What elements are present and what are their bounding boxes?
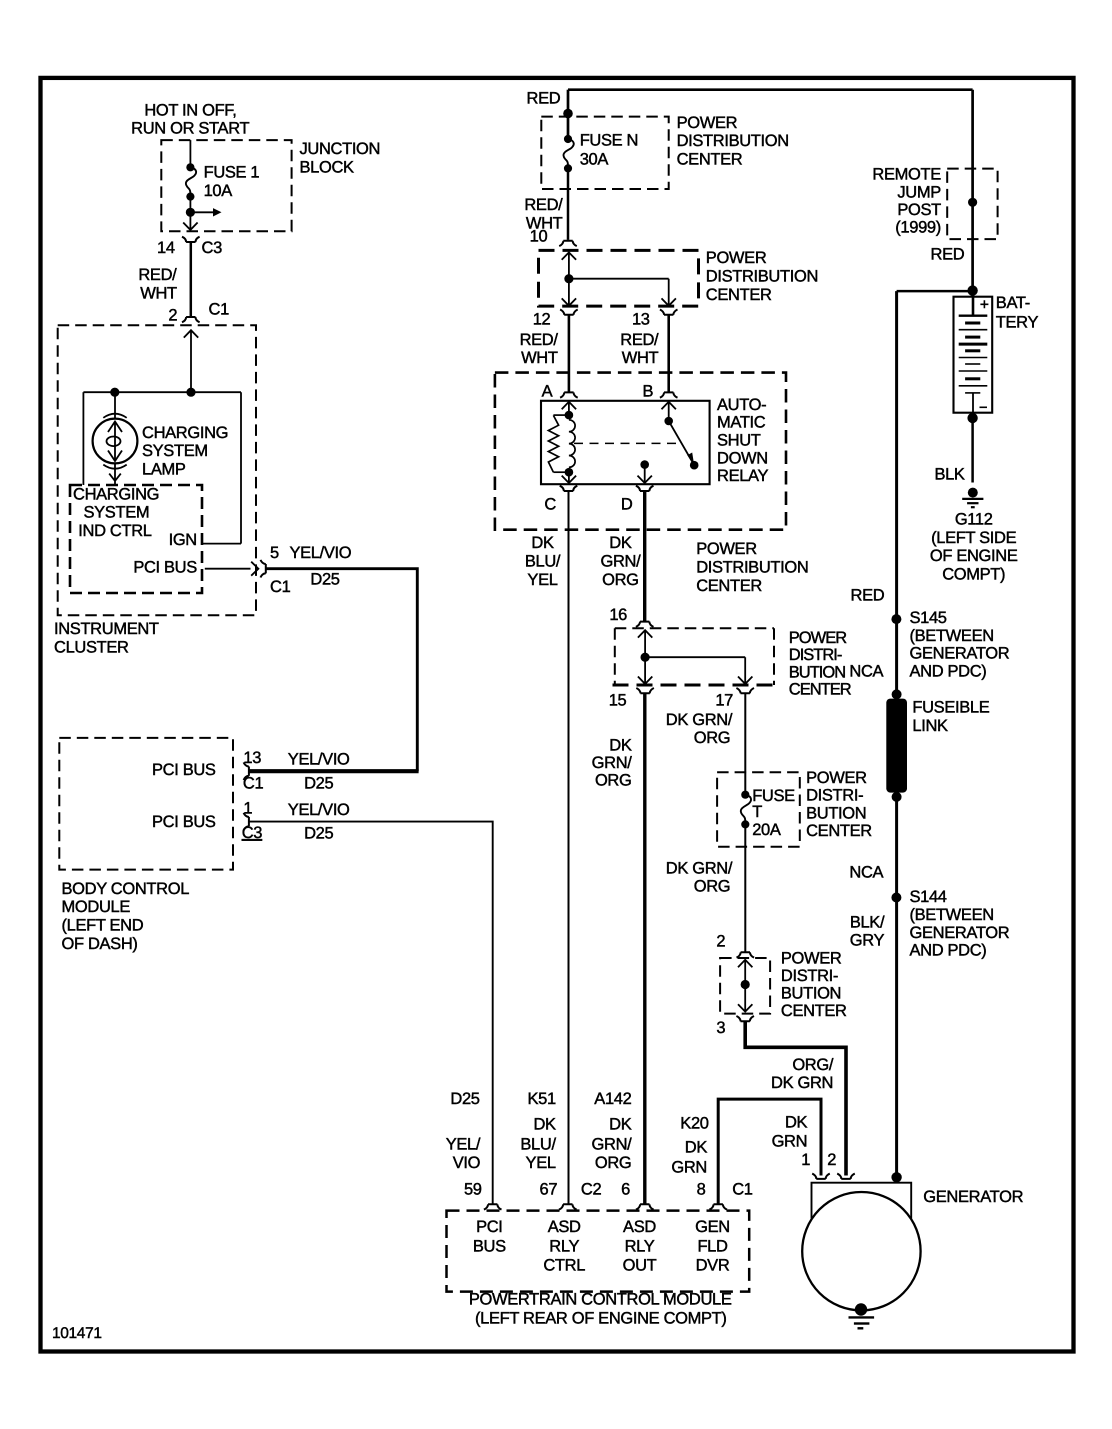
- svg-text:2: 2: [716, 933, 725, 951]
- svg-text:3: 3: [716, 1019, 725, 1037]
- wire NCA (link to S144): [895, 797, 898, 898]
- svg-text:DK GRN: DK GRN: [771, 1074, 833, 1092]
- svg-text:DK: DK: [533, 1115, 556, 1133]
- svg-text:OF ENGINE: OF ENGINE: [930, 547, 1018, 565]
- svg-text:GENERATOR: GENERATOR: [923, 1188, 1023, 1206]
- connector 14 C3 cup: [157, 237, 222, 257]
- svg-text:T: T: [752, 803, 762, 821]
- relay coil arrow A: [562, 402, 576, 415]
- diagram number 101471: [52, 1325, 102, 1342]
- junction block box: [161, 140, 291, 231]
- svg-text:BLOCK: BLOCK: [300, 158, 355, 176]
- svg-text:DISTRIBUTION: DISTRIBUTION: [677, 132, 789, 150]
- wire BLK/GRY to generator: [895, 898, 898, 1178]
- svg-text:BUS: BUS: [473, 1237, 506, 1255]
- remote jump post box: [947, 169, 997, 240]
- wire RED/WHT to cluster: [190, 242, 193, 317]
- svg-text:RUN OR START: RUN OR START: [131, 120, 249, 138]
- relay coil arrow C: [562, 472, 576, 483]
- bus left leg wire: [82, 392, 84, 485]
- svg-text:K20: K20: [680, 1115, 708, 1133]
- relay terminal A cup: [542, 383, 578, 401]
- svg-text:(BETWEEN: (BETWEEN: [910, 627, 994, 645]
- svg-text:DISTRIBUTION: DISTRIBUTION: [706, 268, 818, 286]
- node S145: [891, 614, 901, 624]
- svg-text:PCI BUS: PCI BUS: [152, 761, 216, 779]
- svg-text:AND PDC): AND PDC): [910, 942, 987, 960]
- PDC box 2: [539, 250, 699, 306]
- svg-text:RELAY: RELAY: [717, 467, 768, 485]
- svg-text:JUNCTION: JUNCTION: [300, 140, 381, 158]
- svg-text:AUTO-: AUTO-: [717, 396, 766, 414]
- svg-text:SHUT: SHUT: [717, 432, 761, 450]
- svg-text:YEL/VIO: YEL/VIO: [290, 544, 352, 562]
- wire down to fuse N: [567, 90, 570, 140]
- svg-text:RED/: RED/: [520, 331, 559, 349]
- svg-text:CTRL: CTRL: [543, 1257, 585, 1275]
- svg-text:BLU/: BLU/: [520, 1136, 556, 1154]
- PDC box 4: [717, 772, 800, 847]
- fuse T 20A: [741, 787, 795, 839]
- connector 15 cup: [609, 688, 654, 710]
- PCM pin 67 cup: [540, 1181, 602, 1210]
- svg-text:VIO: VIO: [453, 1154, 481, 1172]
- svg-text:POWERTRAIN CONTROL MODULE: POWERTRAIN CONTROL MODULE: [469, 1291, 732, 1309]
- svg-text:C1: C1: [732, 1181, 753, 1199]
- svg-text:DISTRIBUTION: DISTRIBUTION: [696, 558, 808, 576]
- svg-text:GENERATOR: GENERATOR: [910, 924, 1010, 942]
- svg-text:ORG/: ORG/: [792, 1056, 834, 1074]
- wire to remote jump post: [971, 90, 974, 297]
- svg-text:POWER: POWER: [781, 950, 842, 968]
- PCM pin name ASD RLY OUT: [623, 1218, 657, 1275]
- wire label RED/ WHT 10: [524, 196, 563, 246]
- svg-text:ORG: ORG: [602, 571, 639, 589]
- generator terminal 2 cup: [837, 1174, 855, 1179]
- generator label: [923, 1188, 1023, 1206]
- instrument cluster label: [54, 620, 159, 656]
- svg-text:B: B: [643, 383, 654, 401]
- svg-text:OF DASH): OF DASH): [62, 935, 138, 953]
- powertrain control module label: [469, 1291, 732, 1328]
- wire label DK GRN/ ORG (17): [666, 711, 733, 747]
- svg-text:67: 67: [540, 1181, 558, 1199]
- svg-text:14: 14: [157, 239, 175, 257]
- svg-text:DISTRI-: DISTRI-: [806, 787, 863, 805]
- svg-text:GENERATOR: GENERATOR: [910, 645, 1010, 663]
- svg-text:ORG: ORG: [595, 1154, 632, 1172]
- PCM pin 59 cup: [464, 1181, 502, 1210]
- svg-text:SYSTEM: SYSTEM: [142, 442, 208, 460]
- PDC box 5: [720, 958, 770, 1014]
- node bus-lamp: [110, 388, 119, 397]
- svg-text:13: 13: [243, 749, 261, 767]
- wire YEL/VIO (BCM to PCM 59): [249, 822, 493, 1205]
- svg-text:POST: POST: [897, 201, 941, 219]
- svg-text:RED: RED: [851, 587, 885, 605]
- connector 2 C1 cup: [168, 301, 229, 325]
- PCM pin 6 cup: [621, 1181, 654, 1210]
- svg-text:BAT-: BAT-: [996, 294, 1030, 312]
- wire label column K51 DK BLU/YEL: [520, 1090, 556, 1172]
- PDC2 arrow down left: [562, 279, 576, 306]
- PDC5 arrow down: [738, 985, 752, 1012]
- svg-text:GRN: GRN: [671, 1158, 707, 1176]
- svg-text:POWER: POWER: [789, 629, 847, 647]
- svg-text:MODULE: MODULE: [62, 898, 131, 916]
- arrow down to connector C3: [183, 212, 197, 230]
- svg-text:DK: DK: [685, 1139, 708, 1157]
- node battery negative: [967, 413, 977, 423]
- svg-text:D: D: [621, 495, 633, 513]
- PDC5 node: [741, 980, 750, 989]
- PDC box 1: [541, 117, 668, 189]
- svg-text:INSTRUMENT: INSTRUMENT: [54, 620, 159, 638]
- svg-text:ORG: ORG: [694, 729, 731, 747]
- ground G112 label: [930, 510, 1018, 583]
- svg-text:1: 1: [243, 799, 252, 817]
- svg-text:DOWN: DOWN: [717, 449, 768, 467]
- svg-text:ORG: ORG: [694, 877, 731, 895]
- svg-text:1: 1: [801, 1151, 810, 1169]
- svg-text:MATIC: MATIC: [717, 414, 766, 432]
- NCA label 2: [849, 863, 883, 881]
- svg-text:S144: S144: [910, 888, 947, 906]
- battery: [954, 296, 993, 412]
- svg-text:RED: RED: [527, 90, 561, 108]
- svg-text:GEN: GEN: [695, 1218, 730, 1236]
- svg-text:CENTER: CENTER: [696, 577, 762, 595]
- PCM pin name ASD RLY CTRL: [543, 1218, 585, 1275]
- svg-text:FUSE 1: FUSE 1: [204, 164, 260, 182]
- BCM PCI BUS pin label 2: [152, 813, 216, 831]
- svg-text:WHT: WHT: [140, 285, 177, 303]
- node bus-entry: [186, 388, 195, 397]
- PDC 5 label: [781, 950, 847, 1020]
- thick wire YEL/VIO (cluster to BCM): [249, 569, 419, 772]
- feed arrow right: [190, 208, 221, 216]
- svg-text:FUSEIBLE: FUSEIBLE: [912, 699, 989, 717]
- ground G112: [962, 488, 983, 508]
- svg-text:(LEFT END: (LEFT END: [62, 917, 144, 935]
- svg-text:GRY: GRY: [850, 931, 885, 949]
- svg-text:101471: 101471: [52, 1325, 102, 1342]
- svg-text:30A: 30A: [580, 151, 609, 169]
- svg-text:20A: 20A: [752, 821, 781, 839]
- body control module label: [62, 880, 190, 953]
- svg-text:RED/: RED/: [138, 266, 177, 284]
- fuse F1 10A: [186, 163, 260, 201]
- wire RED label (battery): [931, 246, 965, 264]
- wire label ORG/ DK GRN: [771, 1056, 834, 1092]
- cluster bus wire: [83, 391, 241, 393]
- PDC5 arrow up: [738, 960, 752, 985]
- svg-text:CENTER: CENTER: [806, 822, 872, 840]
- powertrain control module box: [447, 1211, 750, 1292]
- relay switch blade: [664, 417, 698, 470]
- connector 12 cup: [533, 310, 578, 329]
- svg-text:10A: 10A: [204, 182, 233, 200]
- wire label 5 YEL/VIO D25: [290, 544, 352, 588]
- instrument cluster box: [58, 325, 256, 615]
- svg-text:D25: D25: [450, 1090, 479, 1108]
- svg-text:CENTER: CENTER: [789, 681, 852, 699]
- arrow into cluster: [184, 330, 198, 392]
- svg-text:RED/: RED/: [620, 331, 659, 349]
- svg-text:YEL/VIO: YEL/VIO: [288, 801, 350, 819]
- svg-text:LINK: LINK: [912, 717, 948, 735]
- svg-text:C1: C1: [270, 578, 291, 596]
- svg-text:16: 16: [609, 606, 627, 624]
- ASD relay outer box: [495, 373, 786, 530]
- svg-text:YEL: YEL: [526, 1154, 556, 1172]
- wire 13 to relay B: [667, 315, 670, 392]
- PDC3 tie wire: [645, 656, 745, 658]
- svg-text:CLUSTER: CLUSTER: [54, 638, 129, 656]
- PDC2 arrow up: [562, 252, 576, 278]
- tap junction dot: [186, 208, 195, 217]
- charging system lamp label: [142, 424, 228, 479]
- connector 1 C3 cup: [242, 799, 263, 842]
- wire label YEL/VIO D25 (13): [288, 751, 350, 793]
- svg-text:HOT IN OFF,: HOT IN OFF,: [144, 102, 236, 120]
- svg-text:CENTER: CENTER: [677, 150, 743, 168]
- wire into fuse 1: [189, 140, 191, 167]
- wire label BLK/ GRY: [850, 914, 885, 950]
- svg-text:BLU/: BLU/: [525, 552, 561, 570]
- BCM PCI BUS pin label 1: [152, 761, 216, 779]
- svg-text:AND PDC): AND PDC): [910, 662, 987, 680]
- PDC 4 label: [806, 769, 872, 840]
- wire RED label: [527, 90, 561, 108]
- PDC 3 label: [789, 629, 852, 699]
- svg-text:DK: DK: [531, 534, 554, 552]
- wire battery to generator branch: [897, 290, 973, 293]
- connector 5 C1 cup: [261, 544, 291, 596]
- charging system ind ctrl label: [73, 485, 159, 540]
- wire DK GRN/ORG (15 to PCM 6): [643, 693, 646, 1204]
- battery label: [996, 294, 1039, 331]
- node fuse N top: [563, 109, 573, 119]
- svg-text:GRN: GRN: [772, 1132, 808, 1150]
- svg-text:C1: C1: [209, 301, 230, 319]
- PDC3 node: [641, 653, 650, 662]
- svg-text:POWER: POWER: [677, 114, 738, 132]
- svg-text:WHT: WHT: [521, 349, 558, 367]
- svg-text:DK GRN/: DK GRN/: [666, 860, 733, 878]
- svg-text:WHT: WHT: [622, 349, 659, 367]
- svg-text:6: 6: [621, 1181, 630, 1199]
- svg-text:G112: G112: [955, 510, 993, 528]
- svg-text:OUT: OUT: [623, 1257, 657, 1275]
- svg-text:BLK/: BLK/: [850, 914, 885, 932]
- PDC 2 label: [706, 249, 818, 304]
- svg-text:D25: D25: [310, 570, 339, 588]
- svg-text:POWER: POWER: [806, 769, 867, 787]
- svg-text:LAMP: LAMP: [142, 461, 186, 479]
- svg-text:12: 12: [533, 311, 551, 329]
- svg-text:FUSE N: FUSE N: [580, 131, 638, 149]
- svg-text:DK: DK: [609, 534, 632, 552]
- generator pin labels: [801, 1151, 836, 1169]
- relay output contact D: [638, 460, 652, 483]
- wire label YEL/VIO D25 (1): [288, 801, 350, 843]
- svg-text:CENTER: CENTER: [706, 286, 772, 304]
- svg-text:C3: C3: [202, 239, 223, 257]
- connector 3 cup: [716, 1016, 754, 1037]
- charging system lamp: [93, 392, 138, 485]
- wire DK GRN/ORG (D to 16): [643, 491, 646, 622]
- PDC 1 label: [677, 114, 789, 168]
- PDC box 3: [613, 628, 777, 685]
- remote jump post node: [968, 198, 977, 207]
- svg-text:BUTION: BUTION: [789, 663, 845, 681]
- svg-text:17: 17: [715, 692, 733, 710]
- svg-text:RED: RED: [931, 246, 965, 264]
- svg-text:10: 10: [530, 228, 548, 246]
- svg-text:RLY: RLY: [625, 1237, 655, 1255]
- svg-text:D25: D25: [304, 775, 333, 793]
- wire label DK BLU/ YEL: [525, 534, 561, 589]
- wire RED (to S145): [895, 291, 898, 694]
- node S144: [891, 893, 901, 903]
- node battery positive: [967, 285, 977, 295]
- connector 2 cup: [716, 933, 754, 958]
- svg-text:NCA: NCA: [849, 663, 883, 681]
- PDC3 arrow up: [638, 630, 652, 657]
- wire RED/WHT 10: [567, 168, 570, 240]
- svg-text:DISTRI-: DISTRI-: [781, 967, 838, 985]
- hot in off run or start label: [131, 102, 249, 138]
- PDC label (below relay): [696, 540, 808, 595]
- wire BLK to ground: [934, 418, 972, 483]
- svg-text:YEL/VIO: YEL/VIO: [288, 751, 350, 769]
- generator body: [802, 1183, 920, 1311]
- svg-text:BODY CONTROL: BODY CONTROL: [62, 880, 190, 898]
- svg-text:DVR: DVR: [696, 1257, 730, 1275]
- svg-text:ASD: ASD: [623, 1218, 656, 1236]
- wire fuse1 to tap: [189, 197, 191, 213]
- svg-text:(1999): (1999): [895, 219, 941, 237]
- relay link dashed line: [574, 442, 680, 444]
- PCM pin name PCI BUS: [473, 1218, 506, 1255]
- connector 17 cup: [715, 688, 754, 710]
- wire 17 to fuse T: [744, 693, 746, 794]
- svg-text:2: 2: [827, 1151, 836, 1169]
- relay terminal D cup: [621, 486, 654, 514]
- svg-text:15: 15: [609, 692, 627, 710]
- junction block label: [300, 140, 381, 176]
- svg-text:CENTER: CENTER: [781, 1002, 847, 1020]
- wire label RED/WHT (13): [620, 331, 659, 367]
- PDC3 arrow down left: [638, 657, 652, 684]
- svg-text:DISTRI-: DISTRI-: [789, 646, 842, 664]
- generator terminal 1 cup: [812, 1174, 830, 1179]
- fuseible link: [886, 689, 907, 802]
- svg-text:TERY: TERY: [996, 313, 1039, 331]
- svg-text:IGN: IGN: [169, 531, 197, 549]
- wire label DK GRN/ ORG (2): [666, 860, 733, 896]
- svg-text:RLY: RLY: [549, 1237, 579, 1255]
- svg-text:SYSTEM: SYSTEM: [84, 504, 150, 522]
- wire fuse T to connector 2: [744, 824, 746, 952]
- svg-text:2: 2: [168, 307, 177, 325]
- svg-text:YEL/: YEL/: [446, 1136, 481, 1154]
- svg-text:BLK: BLK: [934, 465, 964, 483]
- generator ground: [849, 1303, 875, 1328]
- svg-text:C1: C1: [243, 775, 264, 793]
- PDC2 arrow down right: [662, 279, 676, 306]
- svg-text:C3: C3: [242, 824, 263, 842]
- svg-text:5: 5: [270, 544, 279, 562]
- PCI BUS pin label: [133, 558, 197, 576]
- svg-text:DK: DK: [609, 736, 632, 754]
- svg-text:POWER: POWER: [696, 540, 757, 558]
- svg-text:C2: C2: [581, 1181, 602, 1199]
- wire label RED/WHT (12): [520, 331, 559, 367]
- wire RED label (S145): [851, 587, 885, 605]
- svg-text:GRN/: GRN/: [592, 1136, 633, 1154]
- svg-text:DK GRN/: DK GRN/: [666, 711, 733, 729]
- fuse N 30A: [563, 131, 638, 172]
- svg-text:CHARGING: CHARGING: [73, 485, 159, 503]
- svg-text:(LEFT SIDE: (LEFT SIDE: [931, 529, 1016, 547]
- svg-text:GRN/: GRN/: [592, 754, 633, 772]
- wire label DK GRN/ ORG (15): [592, 736, 633, 789]
- wire DK GRN K20 (PCM 8 to generator 1): [718, 1099, 821, 1204]
- svg-text:A142: A142: [594, 1090, 631, 1108]
- generator case dot: [891, 1172, 901, 1182]
- svg-text:DK: DK: [609, 1115, 632, 1133]
- svg-text:REMOTE: REMOTE: [872, 166, 941, 184]
- svg-text:CHARGING: CHARGING: [142, 424, 228, 442]
- svg-text:ORG: ORG: [595, 772, 632, 790]
- PCM pin 8 cup: [697, 1181, 753, 1210]
- bus right leg wire (IGN): [202, 392, 241, 543]
- NCA label 1: [849, 663, 883, 681]
- svg-text:JUMP: JUMP: [897, 183, 941, 201]
- wire 12 to relay A: [568, 315, 571, 392]
- connector 13b cup: [632, 310, 678, 329]
- svg-text:FLD: FLD: [697, 1237, 728, 1255]
- relay terminal B cup: [643, 383, 678, 401]
- wire label column D25 YEL/VIO: [446, 1090, 481, 1172]
- remote jump post label: [872, 166, 941, 237]
- PDC3 arrow down right: [738, 657, 752, 684]
- svg-text:COMPT): COMPT): [942, 566, 1005, 584]
- PDC2 tie wire: [569, 278, 669, 280]
- relay switch arrow B: [662, 402, 676, 421]
- svg-text:RED/: RED/: [524, 196, 563, 214]
- svg-text:13: 13: [632, 311, 650, 329]
- svg-text:8: 8: [697, 1181, 706, 1199]
- svg-text:C: C: [544, 495, 556, 513]
- svg-text:POWER: POWER: [706, 249, 767, 267]
- splice S144 label: [910, 888, 1010, 959]
- wire ORG/DK GRN (3 to generator 2): [745, 1021, 846, 1175]
- svg-text:59: 59: [464, 1181, 482, 1199]
- relay coil: [548, 411, 575, 477]
- svg-text:PCI: PCI: [476, 1218, 502, 1236]
- svg-text:A: A: [542, 383, 553, 401]
- svg-text:K51: K51: [528, 1090, 556, 1108]
- svg-text:PCI BUS: PCI BUS: [133, 558, 197, 576]
- svg-text:ASD: ASD: [548, 1218, 581, 1236]
- IGN pin label: [169, 531, 197, 549]
- svg-text:(LEFT REAR OF ENGINE COMPT): (LEFT REAR OF ENGINE COMPT): [475, 1309, 727, 1327]
- svg-text:IND CTRL: IND CTRL: [78, 522, 151, 540]
- relay body box: [541, 401, 710, 484]
